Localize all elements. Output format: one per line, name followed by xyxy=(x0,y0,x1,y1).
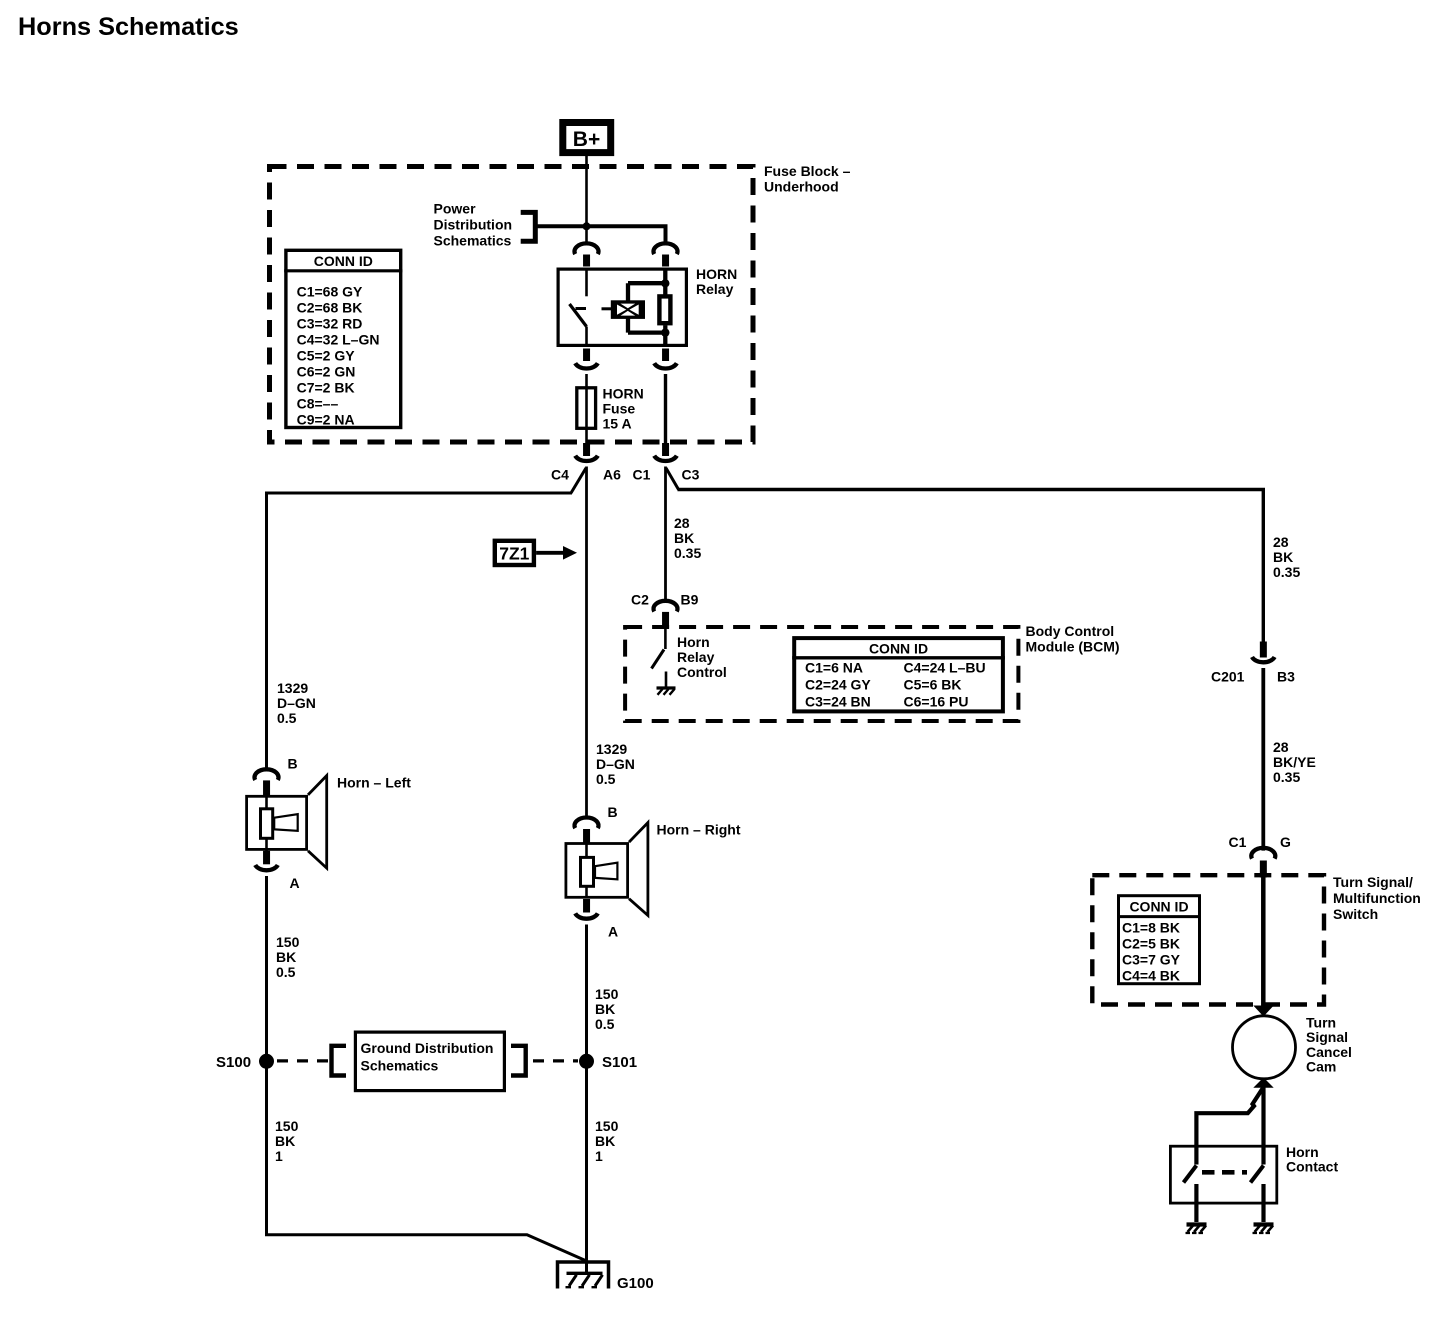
svg-text:C6=16 PU: C6=16 PU xyxy=(904,694,969,710)
connector C1 pin G xyxy=(1251,848,1275,878)
svg-text:Distribution: Distribution xyxy=(434,217,513,233)
svg-text:BK: BK xyxy=(1273,549,1293,565)
ground G100 box xyxy=(558,1262,609,1289)
connector labels C2 B9 xyxy=(631,592,699,608)
horn contact right fixed contact wire xyxy=(1261,1184,1265,1222)
wire label 150 BK 1 (middle) xyxy=(595,1118,619,1164)
connector half above relay right xyxy=(654,243,678,266)
connector C1 pin C3 xyxy=(654,443,677,461)
node S100 xyxy=(259,1054,274,1069)
svg-text:BK: BK xyxy=(674,530,694,546)
svg-text:B: B xyxy=(288,756,298,772)
svg-text:B+: B+ xyxy=(573,128,600,151)
BCM label xyxy=(1026,623,1120,655)
svg-text:C7=2 BK: C7=2 BK xyxy=(297,380,355,396)
svg-text:0.5: 0.5 xyxy=(277,710,297,726)
relay pin 87 wires xyxy=(663,268,667,346)
wire BCM driver xyxy=(664,628,667,649)
connector C2 pin B9 xyxy=(654,601,678,628)
svg-text:Horn: Horn xyxy=(1286,1144,1319,1160)
connector C201 pin B3 xyxy=(1252,642,1275,663)
svg-text:0.35: 0.35 xyxy=(674,545,701,561)
svg-text:A6: A6 xyxy=(603,467,621,483)
wire cancel cam to right contact xyxy=(1261,1087,1265,1165)
svg-text:C2=5 BK: C2=5 BK xyxy=(1122,936,1180,952)
svg-text:G100: G100 xyxy=(617,1275,654,1292)
relay coil bottom lead xyxy=(628,319,665,333)
label 7Z1 callout box xyxy=(495,541,534,565)
connector horn right pin B xyxy=(575,818,599,844)
wire label 1329 D-GN 0.5 (left) xyxy=(277,680,316,726)
turn signal multifunction switch dashed box xyxy=(1092,875,1324,1004)
fuse block underhood dashed box xyxy=(270,167,754,443)
svg-text:1: 1 xyxy=(595,1148,603,1164)
conn id table fuse block xyxy=(284,250,402,427)
svg-text:Cam: Cam xyxy=(1306,1059,1336,1075)
connector half above relay left xyxy=(575,243,599,266)
svg-text:C9=2 NA: C9=2 NA xyxy=(297,412,355,428)
svg-text:C4=24 L–BU: C4=24 L–BU xyxy=(904,660,986,676)
C1 G labels xyxy=(1229,834,1292,850)
svg-text:D–GN: D–GN xyxy=(277,695,316,711)
svg-text:Turn Signal/: Turn Signal/ xyxy=(1333,874,1413,890)
wire label 150 BK 0.5 (middle) xyxy=(595,986,619,1032)
svg-text:C1: C1 xyxy=(633,467,651,483)
BCM driver switch blade xyxy=(652,650,665,669)
svg-text:1329: 1329 xyxy=(596,741,627,757)
svg-text:15 A: 15 A xyxy=(603,416,632,432)
horn contact left switch blade xyxy=(1184,1166,1197,1183)
wire cancel cam to left contact xyxy=(1196,1088,1262,1164)
connector half below relay left xyxy=(575,349,598,369)
svg-text:BK: BK xyxy=(595,1133,615,1149)
wire left branch horizontal xyxy=(267,493,573,770)
svg-text:BK/YE: BK/YE xyxy=(1273,754,1316,770)
svg-text:C2: C2 xyxy=(631,592,649,608)
svg-text:C4: C4 xyxy=(551,467,569,483)
node coil top junction xyxy=(661,279,669,287)
wire C201 to turn signal switch xyxy=(1261,668,1265,851)
svg-text:HORN: HORN xyxy=(603,386,644,402)
svg-text:Power: Power xyxy=(434,201,477,217)
turn signal switch label xyxy=(1333,874,1421,922)
node coil bottom junction xyxy=(661,328,669,336)
wire C3 diagonal to right branch xyxy=(666,468,679,490)
svg-text:B: B xyxy=(608,804,618,820)
connector horn left pin B xyxy=(254,769,278,795)
svg-text:C4=32 L–GN: C4=32 L–GN xyxy=(297,332,380,348)
svg-text:BK: BK xyxy=(595,1001,615,1017)
svg-text:C1: C1 xyxy=(1229,834,1247,850)
svg-text:BK: BK xyxy=(275,1133,295,1149)
wire A6 down to horn right xyxy=(585,467,588,818)
connector horn left pin A xyxy=(255,851,278,871)
svg-text:Relay: Relay xyxy=(696,281,734,297)
relay coil symbol xyxy=(611,300,645,319)
svg-text:D–GN: D–GN xyxy=(596,756,635,772)
svg-text:Relay: Relay xyxy=(677,649,715,665)
relay resistor xyxy=(659,296,670,323)
svg-text:C4=4 BK: C4=4 BK xyxy=(1122,968,1180,984)
svg-text:Fuse Block –: Fuse Block – xyxy=(764,163,851,179)
wire B+ down xyxy=(585,156,588,244)
body control module dashed box xyxy=(625,627,1018,721)
svg-text:1: 1 xyxy=(275,1148,283,1164)
svg-text:Control: Control xyxy=(677,664,727,680)
ground distribution schematics box xyxy=(355,1032,504,1091)
svg-text:A: A xyxy=(608,924,618,940)
svg-text:C1=8 BK: C1=8 BK xyxy=(1122,920,1180,936)
connector labels C4 A6 C1 C3 xyxy=(551,467,700,483)
dashed link S100 to ground distribution xyxy=(277,1059,332,1062)
horn right symbol xyxy=(566,823,648,916)
svg-text:S100: S100 xyxy=(216,1054,251,1071)
horn contact right switch blade xyxy=(1251,1166,1264,1183)
horn relay control label xyxy=(677,634,727,680)
svg-text:0.35: 0.35 xyxy=(1273,769,1300,785)
wire C1 down to BCM xyxy=(664,467,667,601)
ground distribution left bracket xyxy=(332,1046,347,1076)
svg-text:Module (BCM): Module (BCM) xyxy=(1026,639,1120,655)
relay coil top lead xyxy=(628,283,665,300)
svg-text:Signal: Signal xyxy=(1306,1029,1348,1045)
svg-text:0.35: 0.35 xyxy=(1273,564,1300,580)
wire label 150 BK 1 (left) xyxy=(275,1118,299,1164)
svg-text:0.5: 0.5 xyxy=(276,964,296,980)
BCM driver ground lead xyxy=(665,672,668,688)
svg-text:Multifunction: Multifunction xyxy=(1333,890,1421,906)
wire relay to fuse and through to C4 xyxy=(585,374,588,444)
battery feed B+ xyxy=(563,123,611,153)
horn contact box xyxy=(1170,1146,1276,1203)
horn contact label xyxy=(1286,1144,1338,1175)
svg-text:Horn – Left: Horn – Left xyxy=(337,775,411,791)
svg-text:Cancel: Cancel xyxy=(1306,1044,1352,1060)
svg-text:S101: S101 xyxy=(602,1054,637,1071)
fuse block label xyxy=(764,163,851,195)
wire label 1329 D-GN 0.5 (middle) xyxy=(596,741,635,787)
cancel cam label xyxy=(1306,1015,1352,1075)
svg-text:C3=32 RD: C3=32 RD xyxy=(297,316,363,332)
svg-text:Underhood: Underhood xyxy=(764,179,839,195)
conn id table BCM xyxy=(792,638,1005,711)
turn signal cancel cam circle xyxy=(1233,1016,1296,1079)
svg-text:CONN ID: CONN ID xyxy=(314,253,373,269)
svg-text:C3: C3 xyxy=(682,467,700,483)
fuse label xyxy=(603,386,644,432)
svg-text:150: 150 xyxy=(595,1118,619,1134)
wire C4 diagonal to left branch xyxy=(571,468,586,493)
relay switch pin 30 wire xyxy=(585,268,588,297)
wire turn signal switch internal xyxy=(1261,877,1266,1007)
svg-text:B9: B9 xyxy=(681,592,699,608)
svg-text:Ground Distribution: Ground Distribution xyxy=(361,1040,494,1056)
svg-text:Contact: Contact xyxy=(1286,1159,1338,1175)
ground G100 chassis symbol xyxy=(566,1273,603,1287)
svg-text:C8=––: C8=–– xyxy=(297,396,339,412)
svg-text:C2=68 BK: C2=68 BK xyxy=(297,300,363,316)
svg-text:C6=2 GN: C6=2 GN xyxy=(297,364,356,380)
fuse F1 HORN Fuse 15A xyxy=(577,388,596,429)
wire relay 87 to connector C1 xyxy=(664,374,667,444)
ground left horn contact xyxy=(1186,1225,1207,1234)
7Z1 arrow xyxy=(536,546,577,560)
horn contact left fixed contact wire xyxy=(1194,1184,1198,1222)
svg-text:1329: 1329 xyxy=(277,680,308,696)
svg-text:Horns Schematics: Horns Schematics xyxy=(18,13,239,41)
connector half below relay right xyxy=(654,349,677,369)
svg-text:B3: B3 xyxy=(1277,669,1295,685)
arrow from horn contact to cancel cam xyxy=(1253,1078,1273,1088)
svg-text:A: A xyxy=(290,875,300,891)
svg-text:Horn – Right: Horn – Right xyxy=(657,822,741,838)
svg-text:C1=68 GY: C1=68 GY xyxy=(297,284,363,300)
horn left symbol xyxy=(247,776,327,869)
svg-text:0.5: 0.5 xyxy=(595,1016,615,1032)
svg-text:150: 150 xyxy=(595,986,619,1002)
svg-text:7Z1: 7Z1 xyxy=(499,543,529,563)
svg-text:Horn: Horn xyxy=(677,634,710,650)
svg-text:C2=24 GY: C2=24 GY xyxy=(805,677,871,693)
svg-text:28: 28 xyxy=(674,515,690,531)
ground BCM internal xyxy=(657,688,676,695)
C201 B3 labels xyxy=(1211,669,1295,685)
svg-text:HORN: HORN xyxy=(696,266,737,282)
wire horn left A down to S100 and G100 run xyxy=(267,876,587,1261)
wire power distribution feed xyxy=(535,226,665,243)
node S101 xyxy=(579,1054,594,1069)
dashed link ground distribution to S101 xyxy=(533,1059,578,1062)
svg-text:CONN ID: CONN ID xyxy=(869,641,928,657)
relay coil left lead xyxy=(602,307,612,310)
svg-text:Switch: Switch xyxy=(1333,906,1378,922)
svg-text:C201: C201 xyxy=(1211,669,1245,685)
svg-text:C3=7 GY: C3=7 GY xyxy=(1122,952,1181,968)
svg-text:Schematics: Schematics xyxy=(434,233,512,249)
svg-text:BK: BK xyxy=(276,949,296,965)
conn id table turn signal switch xyxy=(1117,896,1200,984)
relay switch output wire xyxy=(585,327,588,346)
svg-text:Turn: Turn xyxy=(1306,1015,1336,1031)
horn contact dashed coupler xyxy=(1202,1170,1247,1175)
svg-text:C5=6 BK: C5=6 BK xyxy=(904,677,962,693)
svg-text:Fuse: Fuse xyxy=(603,401,636,417)
arrow to cancel cam xyxy=(1253,1006,1273,1017)
connector horn right pin A xyxy=(575,899,598,919)
relay armature tick xyxy=(576,307,587,310)
wire right branch horizontal xyxy=(678,490,1264,642)
svg-text:C1=6 NA: C1=6 NA xyxy=(805,660,863,676)
svg-text:28: 28 xyxy=(1273,739,1289,755)
connector C4 pin A6 xyxy=(575,443,598,461)
relay switch blade xyxy=(570,304,587,327)
svg-text:0.5: 0.5 xyxy=(596,771,616,787)
wire label 150 BK 0.5 (left) xyxy=(276,934,300,980)
svg-text:CONN ID: CONN ID xyxy=(1129,899,1188,915)
svg-text:C5=2 GY: C5=2 GY xyxy=(297,348,356,364)
wire label 28 BK 0.35 (right) xyxy=(1273,534,1300,580)
power distribution schematics reference label xyxy=(434,201,513,249)
wire label 28 BK/YE 0.35 xyxy=(1273,739,1316,785)
svg-text:28: 28 xyxy=(1273,534,1289,550)
svg-text:C3=24 BN: C3=24 BN xyxy=(805,694,871,710)
svg-text:G: G xyxy=(1280,834,1291,850)
node junction B+ feed xyxy=(583,222,591,230)
svg-text:150: 150 xyxy=(276,934,300,950)
wire label 28 BK 0.35 (BCM feed) xyxy=(674,515,701,561)
relay label xyxy=(696,266,737,297)
ground right horn contact xyxy=(1253,1225,1274,1234)
wire horn right A down to G100 xyxy=(585,925,588,1274)
power distribution bracket xyxy=(521,212,536,241)
svg-text:150: 150 xyxy=(275,1118,299,1134)
svg-text:Body Control: Body Control xyxy=(1026,623,1115,639)
relay K1 HORN Relay box xyxy=(558,269,686,345)
svg-text:Schematics: Schematics xyxy=(361,1058,439,1074)
ground distribution right bracket xyxy=(511,1046,526,1076)
